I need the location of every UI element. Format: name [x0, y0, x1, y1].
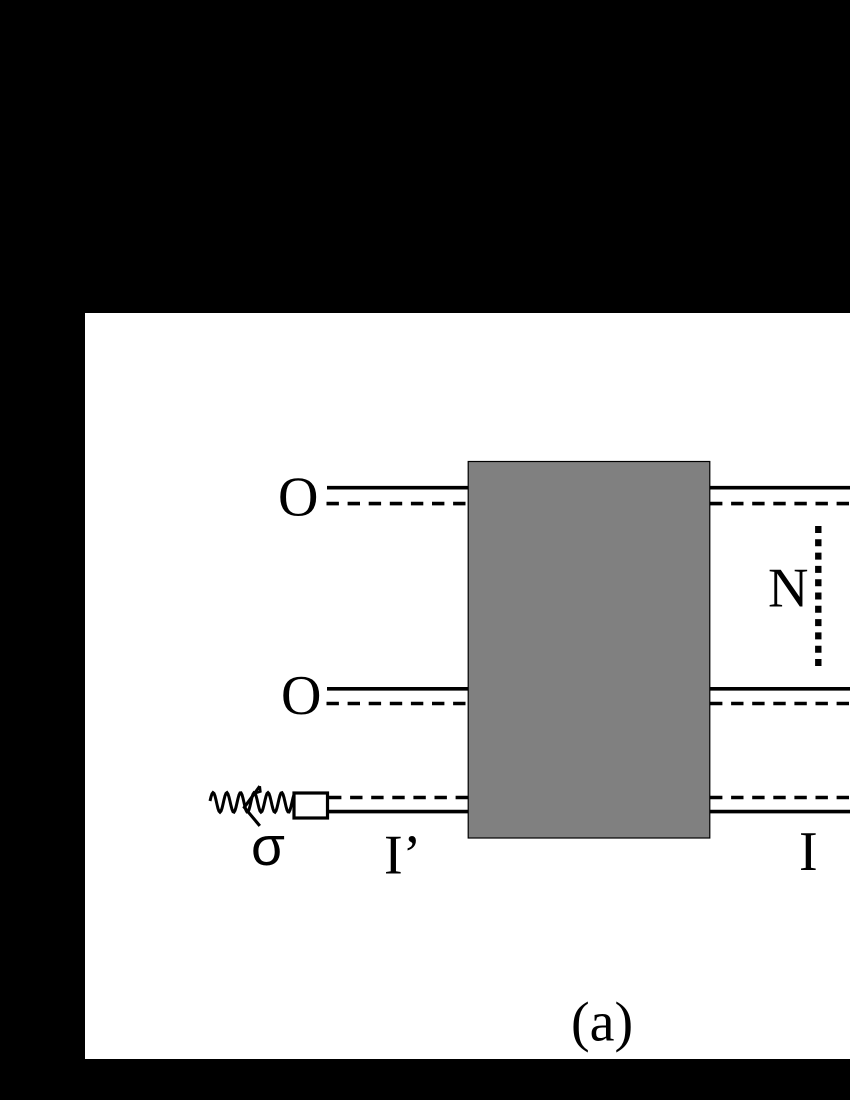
svg-text:I: I	[799, 821, 818, 883]
ellipsis: vertical dotted line (N modes)	[815, 526, 821, 668]
wire: middle-left solid line (port O lower)	[327, 687, 468, 691]
photon wavy line (sigma input)	[210, 793, 294, 813]
svg-text:N: N	[768, 558, 808, 620]
wire: top-left dashed line (port O upper)	[327, 502, 469, 506]
wire: middle-left dashed line (port O lower)	[327, 702, 469, 706]
arrowhead	[255, 786, 261, 793]
svg-text:O: O	[281, 665, 321, 727]
white figure panel	[85, 313, 850, 1059]
svg-text:O: O	[278, 467, 318, 529]
wire: bottom-right dashed line (port I)	[710, 796, 850, 800]
unitary block U (gray rectangle)	[468, 462, 710, 839]
svg-text:(a): (a)	[571, 992, 633, 1054]
arrow on wavy line (reflection arrow)	[244, 786, 259, 826]
svg-text:σ: σ	[251, 815, 285, 877]
wire: top-left solid line (port O upper)	[327, 486, 468, 490]
wire: top-right solid line	[710, 486, 850, 490]
wire: bottom-right solid line (port I)	[710, 810, 850, 814]
source box (white square on sigma line)	[294, 793, 328, 818]
wire: bottom-left solid line (port I')	[329, 810, 468, 814]
wire: middle-right solid line	[710, 687, 850, 691]
wire: middle-right dashed line	[710, 702, 850, 706]
wire: top-right dashed line	[710, 502, 850, 506]
wire: bottom-left dashed line (port I')	[329, 796, 468, 800]
svg-text:I’: I’	[384, 825, 421, 887]
